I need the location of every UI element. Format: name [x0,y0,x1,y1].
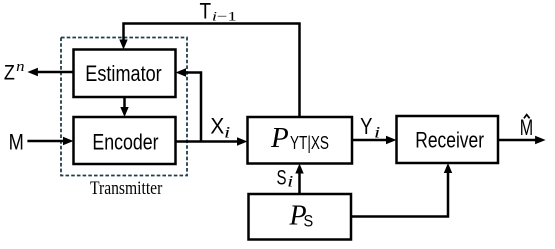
wire Receiver output [498,139,537,142]
box P_S [249,194,352,240]
svg-text:S: S [277,166,287,190]
arrowhead into Encoder left [63,137,74,145]
svg-text:X: X [210,114,224,139]
arrowhead into Estimator right [176,68,187,76]
svg-text:Encoder: Encoder [92,130,158,155]
arrowhead output M hat [535,136,546,144]
arrowhead into Receiver [386,136,397,144]
svg-text:P: P [270,122,289,154]
svg-text:Y: Y [360,113,372,139]
box Receiver [397,116,499,163]
arrowhead into P channel bottom [295,164,303,174]
transmitter dashed box [61,38,187,176]
svg-text:i: i [374,125,380,142]
svg-text:YT|XS: YT|XS [290,133,329,153]
svg-text:i: i [287,173,293,190]
svg-text:T: T [200,0,212,24]
box Estimator [74,50,176,98]
svg-text:Estimator: Estimator [85,61,161,86]
arrowhead into Encoder [120,107,128,117]
svg-text:Z: Z [4,61,15,85]
arrowhead into Receiver bottom [444,163,452,173]
wire feedback X to Estimator [185,73,201,142]
wire P_S to Receiver [351,171,448,217]
svg-text:M: M [9,130,24,155]
svg-text:i−1: i−1 [212,8,237,23]
wire T feedback top [124,24,300,118]
svg-text:i: i [224,124,230,141]
svg-text:S: S [304,212,314,231]
svg-text:Transmitter: Transmitter [90,178,163,199]
svg-text:M: M [520,115,533,140]
wire S into P channel [298,171,301,194]
svg-text:Receiver: Receiver [415,128,484,153]
arrowhead Z (points left) [27,68,38,76]
box Encoder [74,117,176,164]
box P_YT|XS [248,117,353,164]
wire Estimator to Encoder [123,97,126,109]
wire Z out of Estimator [36,71,74,74]
arrowhead into P channel [237,137,248,145]
wire Encoder to P channel [176,140,240,143]
wire P to Receiver [352,139,388,142]
wire M into Encoder [27,140,65,143]
arrowhead into Estimator top [119,40,127,50]
svg-text:n: n [16,59,24,75]
